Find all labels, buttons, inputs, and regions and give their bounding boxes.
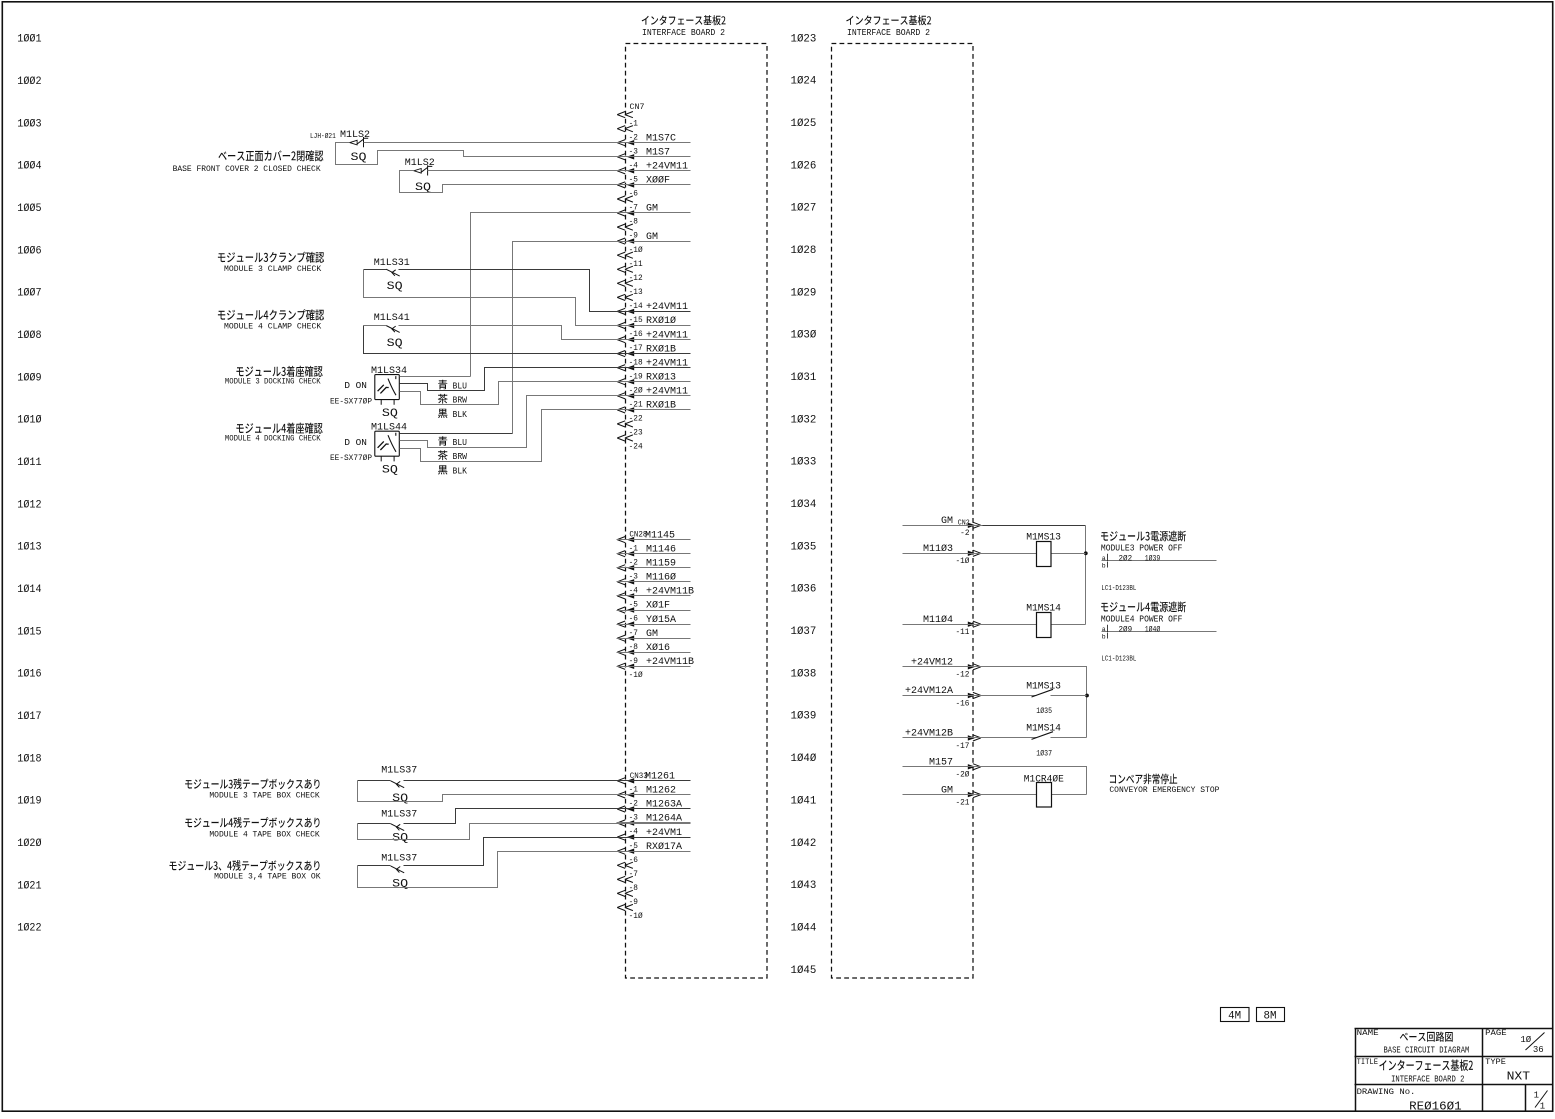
svg-text:TYPE: TYPE [1485, 1059, 1506, 1067]
connector CN33 pin header [617, 778, 625, 784]
svg-text:M1159: M1159 [646, 559, 676, 570]
wire M1LS31 to CN7-14 +24VM11 [364, 270, 691, 312]
wire M157 stub [903, 766, 983, 768]
svg-text:BASE FRONT COVER 2 CLOSED CHEC: BASE FRONT COVER 2 CLOSED CHECK [173, 164, 322, 174]
connector CN2 pin -2Ø M157 [968, 764, 976, 769]
connector CN7 pin 6 [617, 196, 625, 202]
svg-text:M1MS13: M1MS13 [1026, 533, 1061, 544]
wire CN33 M1261 stub [617, 780, 691, 782]
wire M1S7C : M1LS2 to CN7-2 [364, 142, 691, 144]
connector CN28 pin 2 [617, 565, 625, 571]
connector CN7 pin 17 [617, 351, 625, 357]
wire CN7-14 +24VM11 stub [617, 311, 691, 313]
connector CN2 pin -1Ø M11Ø3 [968, 551, 976, 556]
wire M1264A : M1LS37 loop to CN33-3 [358, 824, 691, 840]
connector CN2 pin -16 +24VM12A [968, 693, 976, 698]
svg-text:-17: -17 [629, 345, 643, 353]
svg-text:1: 1 [1534, 1090, 1539, 1100]
connector CN33 pin 6 [617, 862, 625, 868]
svg-text:-8: -8 [629, 885, 639, 893]
svg-text:M1MS14: M1MS14 [1026, 604, 1061, 615]
wire CN28 YØ15A stub [617, 624, 691, 626]
contact cross-reference table a/b 209 1040 [1102, 631, 1217, 633]
svg-text:1Ø16: 1Ø16 [17, 669, 41, 681]
wire M1103 to coil M1MS13 [983, 553, 1086, 555]
svg-text:8M: 8M [1264, 1011, 1277, 1023]
svg-text:1Ø27: 1Ø27 [791, 203, 817, 215]
svg-text:-7: -7 [629, 871, 639, 879]
svg-text:M1LS37: M1LS37 [381, 854, 417, 865]
svg-text:BLU: BLU [453, 381, 468, 392]
label base front cover 2 closed check (JP) [218, 150, 323, 161]
relay coil M1MS13 [1037, 542, 1052, 567]
wire GM : CN7-7 down to M1LS34 [471, 213, 691, 377]
wire GM to coil M1CR40E [983, 794, 1087, 796]
svg-text:BLK: BLK [453, 409, 468, 420]
svg-text:-22: -22 [629, 416, 643, 424]
svg-text:1Ø17: 1Ø17 [17, 711, 41, 723]
svg-text:1Ø41: 1Ø41 [791, 795, 817, 807]
wire +24VM12B stub [903, 737, 983, 739]
label module 4 clamp check (JP) [218, 309, 324, 320]
wire CN7-19 RXØ13 stub [617, 381, 691, 383]
wire CN28 M1159 stub [617, 567, 691, 569]
svg-text:-5: -5 [629, 177, 639, 185]
wire CN7-20 +24VM11 stub [617, 395, 691, 397]
svg-text:MODULE 3 DOCKING CHECK: MODULE 3 DOCKING CHECK [225, 378, 321, 387]
svg-text:b: b [1102, 563, 1106, 570]
wire CN28 M116Ø stub [617, 581, 691, 583]
svg-text:NXT: NXT [1507, 1070, 1531, 1083]
wire CN7-21 RXØ1B stub [617, 409, 691, 411]
svg-text:CN7: CN7 [630, 103, 645, 112]
connector CN7 pin 11 [617, 266, 625, 272]
svg-text:1Ø34: 1Ø34 [791, 499, 817, 511]
connector CN7 pin 23 [617, 435, 625, 441]
svg-text:1ØØ6: 1ØØ6 [17, 245, 41, 257]
svg-text:1Ø37: 1Ø37 [1036, 750, 1052, 759]
svg-text:PAGE: PAGE [1485, 1030, 1507, 1038]
svg-text:-21: -21 [955, 800, 969, 808]
svg-text:SQ: SQ [392, 793, 408, 805]
connector CN7 pin 8 [617, 224, 625, 230]
svg-text:M1LS31: M1LS31 [374, 258, 410, 269]
connector CN2 pin -17 +24VM12B [968, 735, 976, 740]
svg-text:INTERFACE BOARD 2: INTERFACE BOARD 2 [847, 27, 930, 38]
svg-text:-24: -24 [629, 444, 643, 452]
svg-text:MODULE 3 TAPE BOX CHECK: MODULE 3 TAPE BOX CHECK [209, 791, 320, 801]
svg-text:-9: -9 [629, 658, 639, 666]
wire CN28 GM stub [617, 638, 691, 640]
svg-text:BRW: BRW [453, 451, 468, 462]
svg-text:M1LS41: M1LS41 [374, 313, 410, 324]
wire CN28 M1145 stub [617, 539, 691, 541]
wire M1104 to coil M1MS14 [983, 624, 1086, 626]
svg-text:M1146: M1146 [646, 544, 676, 555]
svg-text:-3: -3 [629, 815, 639, 823]
connector CN7 pin 12 [617, 280, 625, 286]
label module 4 tape box check (JP) [185, 817, 319, 828]
svg-text:SQ: SQ [392, 832, 408, 844]
svg-text:1Ø12: 1Ø12 [17, 499, 41, 511]
connector CN33 pin 8 [617, 890, 625, 896]
wire M1261 : M1LS37 to CN33 [358, 780, 691, 782]
connector CN28 pin 4 [617, 593, 625, 599]
wire CN28 XØ1F stub [617, 610, 691, 612]
wire CN7-5 XØØF stub [617, 184, 691, 186]
svg-text:-1: -1 [629, 120, 639, 128]
interface board 2 (left) title [642, 15, 726, 25]
svg-text:TITLE: TITLE [1357, 1059, 1379, 1067]
svg-text:SQ: SQ [387, 338, 403, 350]
svg-text:MODULE 3,4 TAPE BOX OK: MODULE 3,4 TAPE BOX OK [214, 872, 321, 882]
wire GM : CN7-9 down to M1LS44 [513, 242, 691, 434]
wire +24VM1 : M1LS37 to CN33-4 [358, 838, 691, 866]
connector CN2 pin -2 GM [968, 523, 976, 528]
svg-text:-2Ø: -2Ø [629, 386, 643, 395]
svg-text:1Ø45: 1Ø45 [791, 965, 817, 977]
wire RX017A : M1LS37 loop to CN33-5 [358, 852, 691, 888]
svg-text:-13: -13 [629, 289, 643, 297]
svg-text:1Ø36: 1Ø36 [791, 584, 817, 596]
wire CN33 M1263A stub [617, 808, 691, 810]
svg-text:M1LS2: M1LS2 [340, 130, 370, 141]
wire RX010 : M1LS31 loop to CN7-15 [364, 270, 691, 326]
svg-text:INTERFACE BOARD 2: INTERFACE BOARD 2 [1391, 1074, 1464, 1085]
svg-text:SQ: SQ [387, 281, 403, 293]
connector CN7 pin 19 [617, 379, 625, 385]
svg-text:1ØØ5: 1ØØ5 [17, 203, 41, 215]
svg-text:M1LS34: M1LS34 [371, 366, 407, 377]
marker box 4M [1221, 1008, 1250, 1022]
connector CN7 pin 21 [617, 407, 625, 413]
svg-text:-4: -4 [629, 588, 639, 596]
connector CN7 pin 20 [617, 393, 625, 399]
svg-text:-8: -8 [629, 644, 639, 652]
svg-text:CONVEYOR EMERGENCY STOP: CONVEYOR EMERGENCY STOP [1109, 785, 1219, 795]
svg-text:M1LS44: M1LS44 [371, 423, 407, 434]
wire CN28 XØ16 stub [617, 652, 691, 654]
svg-text:M1LS2: M1LS2 [405, 158, 435, 169]
wire CN33 M1264A stub [617, 822, 691, 824]
svg-text:MODULE3 POWER OFF: MODULE3 POWER OFF [1101, 544, 1183, 554]
connector CN33 pin 9 [617, 904, 625, 910]
wire +24VM11 : M1LS2 to CN7-4 [428, 170, 691, 172]
connector CN7 pin 22 [617, 421, 625, 427]
connector CN28 pin 9 [617, 663, 625, 669]
connector CN28 pin 7 [617, 635, 625, 641]
svg-text:1Ø1Ø: 1Ø1Ø [17, 415, 41, 427]
svg-text:-4: -4 [629, 829, 639, 837]
svg-text:-5: -5 [629, 843, 639, 851]
label module 4 docking check (JP) [236, 423, 322, 434]
svg-text:1Ø4Ø: 1Ø4Ø [1145, 625, 1161, 634]
svg-text:-2: -2 [629, 801, 639, 809]
svg-text:-9: -9 [629, 233, 639, 241]
connector CN28 pin header [617, 537, 625, 543]
wire BRW : M1LS44 to CN7-20 +24VM11 [400, 396, 691, 448]
wire M157 to coil bus [983, 767, 1087, 795]
svg-text:-23: -23 [629, 430, 643, 438]
svg-text:1Ø42: 1Ø42 [791, 838, 817, 850]
svg-text:-9: -9 [629, 899, 639, 907]
wire CN33 +24VM1 stub [617, 837, 691, 839]
svg-text:1ØØ9: 1ØØ9 [17, 372, 41, 384]
svg-text:BLK: BLK [453, 466, 468, 477]
wire M1S7 : M1LS2 loop to CN7-3 [336, 143, 691, 165]
svg-text:MODULE4 POWER OFF: MODULE4 POWER OFF [1101, 614, 1183, 624]
svg-text:M116Ø: M116Ø [646, 572, 676, 584]
connector CN28 pin 5 [617, 607, 625, 613]
wire X00F : M1LS2 loop to CN7-5 [400, 171, 691, 193]
svg-text:1Ø31: 1Ø31 [791, 372, 817, 384]
interface board 2 (right) dashed outline [832, 44, 974, 979]
wire CN28 M1146 stub [617, 553, 691, 555]
svg-text:36: 36 [1533, 1045, 1544, 1055]
contact cross-reference table a/b 202 1039 [1102, 560, 1217, 562]
wire M1263A : M1LS37 to CN33-2 [358, 809, 691, 824]
svg-text:1Ø43: 1Ø43 [791, 880, 817, 892]
wire BLU : M1LS34 to GM [400, 376, 471, 378]
svg-text:-15: -15 [629, 317, 643, 325]
connector CN2 pin -12 +24VM12 [968, 664, 976, 669]
svg-text:1Ø4Ø: 1Ø4Ø [791, 753, 817, 765]
connector CN33 pin 5 [617, 848, 625, 854]
svg-text:1Ø14: 1Ø14 [17, 584, 41, 596]
wire RX01B : M1LS41 loop to CN7-17 [364, 326, 691, 354]
svg-text:1ØØ4: 1ØØ4 [17, 161, 41, 173]
connector CN7 pin 2 [617, 140, 625, 146]
svg-text:1Ø18: 1Ø18 [17, 753, 41, 765]
svg-text:DRAWING No.: DRAWING No. [1357, 1087, 1416, 1097]
svg-text:GM: GM [646, 629, 658, 640]
svg-text:INTERFACE BOARD 2: INTERFACE BOARD 2 [642, 27, 725, 38]
svg-text:1Ø22: 1Ø22 [17, 923, 41, 935]
svg-text:EE-SX77ØP: EE-SX77ØP [330, 453, 372, 463]
svg-text:M1LS37: M1LS37 [381, 810, 417, 821]
svg-text:1Ø39: 1Ø39 [791, 711, 817, 723]
wire BLK : M1LS44 to CN7-21 RX01B [400, 410, 691, 462]
svg-text:a: a [1102, 626, 1106, 633]
svg-text:-6: -6 [629, 616, 639, 624]
svg-text:-21: -21 [629, 402, 643, 410]
wire M1262 : M1LS37 loop to CN33-1 [358, 781, 691, 802]
contact M1MS13 (NO) [983, 695, 1087, 697]
wire CN7-18 +24VM11 stub [617, 367, 691, 369]
svg-text:M1LS37: M1LS37 [381, 766, 417, 777]
interface board 2 (right) title [846, 15, 931, 25]
svg-text:1Ø23: 1Ø23 [791, 33, 817, 45]
svg-text:-2Ø: -2Ø [955, 771, 969, 780]
connector CN7 pin 3 [617, 154, 625, 160]
svg-text:SQ: SQ [382, 408, 398, 420]
svg-text:BLU: BLU [453, 437, 468, 448]
wire CN7-15 RXØ1Ø stub [617, 325, 691, 327]
svg-text:1: 1 [1540, 1102, 1545, 1112]
wire M11Ø4 stub [903, 624, 983, 626]
wire CN7-7 GM stub [617, 212, 691, 214]
svg-text:1Ø: 1Ø [1520, 1035, 1531, 1045]
connector CN7 pin 9 [617, 238, 625, 244]
svg-text:-1Ø: -1Ø [955, 557, 969, 566]
connector CN7 pin 5 [617, 182, 625, 188]
svg-text:b: b [1102, 634, 1106, 641]
connector CN33 pin 3 [617, 820, 625, 826]
wire CN7-2 M1S7C stub [617, 142, 691, 144]
svg-text:-18: -18 [629, 359, 643, 367]
svg-text:1Ø39: 1Ø39 [1145, 554, 1161, 563]
junction at M1MS13 coil output [1084, 551, 1088, 555]
svg-text:BASE CIRCUIT DIAGRAM: BASE CIRCUIT DIAGRAM [1384, 1045, 1470, 1056]
svg-text:+24VM11B: +24VM11B [646, 657, 694, 668]
contact M1MS14 (NO) [983, 737, 1087, 739]
relay coil M1CR40E [1037, 783, 1052, 808]
svg-text:+24VM11B: +24VM11B [646, 587, 694, 598]
svg-text:D ON: D ON [344, 437, 367, 448]
wire +24VM12 to contact bus [983, 667, 1087, 738]
svg-text:NAME: NAME [1357, 1030, 1379, 1038]
svg-text:MODULE 4 DOCKING CHECK: MODULE 4 DOCKING CHECK [225, 435, 321, 444]
svg-text:-1: -1 [629, 787, 639, 795]
svg-text:-1Ø: -1Ø [629, 671, 643, 680]
svg-text:XØ1F: XØ1F [646, 600, 670, 612]
connector CN7 pin header [617, 112, 625, 118]
svg-text:1Ø15: 1Ø15 [17, 626, 41, 638]
connector CN28 pin 6 [617, 621, 625, 627]
title block frame [1355, 1028, 1554, 1112]
svg-text:1Ø35: 1Ø35 [1036, 707, 1052, 716]
svg-text:-19: -19 [629, 373, 643, 381]
svg-text:1Ø11: 1Ø11 [17, 457, 41, 469]
svg-text:-1: -1 [629, 545, 639, 553]
svg-text:1ØØ8: 1ØØ8 [17, 330, 41, 342]
svg-text:1Ø25: 1Ø25 [791, 118, 817, 130]
connector CN7 pin 13 [617, 294, 625, 300]
svg-text:-4: -4 [629, 162, 639, 170]
connector CN7 pin 16 [617, 337, 625, 343]
label module 3 docking check (JP) [236, 366, 322, 377]
svg-text:2Ø9: 2Ø9 [1119, 625, 1133, 634]
junction at M1MS13 contact output [1085, 694, 1089, 698]
svg-text:GM: GM [646, 204, 658, 215]
label conveyor emergency stop (JP) [1110, 774, 1177, 785]
svg-text:-7: -7 [629, 630, 639, 638]
wire +24VM12 stub [903, 666, 983, 668]
svg-text:1Ø37: 1Ø37 [791, 626, 817, 638]
svg-text:SQ: SQ [392, 879, 408, 891]
svg-text:1Ø29: 1Ø29 [791, 287, 817, 299]
svg-text:YØ15A: YØ15A [646, 614, 676, 626]
label module 4 power off (JP) [1101, 601, 1186, 612]
svg-text:-6: -6 [629, 857, 639, 865]
connector CN7 pin 18 [617, 365, 625, 371]
svg-text:-1Ø: -1Ø [629, 912, 643, 921]
svg-text:M1CR4ØE: M1CR4ØE [1024, 773, 1064, 785]
svg-text:-16: -16 [955, 700, 969, 708]
svg-text:-11: -11 [955, 629, 969, 637]
wire CN7-16 +24VM11 stub [617, 339, 691, 341]
svg-text:MODULE 3 CLAMP CHECK: MODULE 3 CLAMP CHECK [224, 264, 322, 274]
svg-text:a: a [1102, 555, 1106, 562]
connector CN2 pin -21 GM [968, 792, 976, 797]
svg-text:1Ø19: 1Ø19 [17, 796, 41, 808]
wire BRW : M1LS34 to CN7-18 +24VM11 [400, 368, 691, 391]
svg-text:-2: -2 [629, 559, 639, 567]
connector CN33 pin 1 [617, 792, 625, 798]
svg-text:1Ø13: 1Ø13 [17, 542, 41, 554]
svg-text:1ØØ1: 1ØØ1 [17, 34, 41, 46]
svg-text:1ØØ2: 1ØØ2 [17, 76, 41, 88]
label module 3,4 tape box ok (JP) [170, 860, 320, 871]
wire CN33 RXØ17A stub [617, 851, 691, 853]
svg-text:-12: -12 [629, 275, 643, 283]
connector CN28 pin 8 [617, 649, 625, 655]
wire CN7-17 RXØ1B stub [617, 353, 691, 355]
wire CN7-3 M1S7 stub [617, 156, 691, 158]
svg-text:-11: -11 [629, 261, 643, 269]
connector CN2 pin -11 M11Ø4 [968, 622, 976, 627]
connector CN7 pin 15 [617, 322, 625, 328]
svg-text:M1145: M1145 [645, 530, 675, 541]
svg-text:SQ: SQ [351, 152, 367, 164]
svg-text:-3: -3 [629, 148, 639, 156]
svg-text:MODULE 4 CLAMP CHECK: MODULE 4 CLAMP CHECK [224, 322, 322, 332]
wire GM stub [903, 525, 983, 527]
svg-text:1ØØ7: 1ØØ7 [17, 288, 41, 300]
svg-text:1Ø24: 1Ø24 [791, 76, 817, 88]
wire CN33 M1262 stub [617, 794, 691, 796]
wire GM stub [903, 794, 983, 796]
svg-text:MODULE 4 TAPE BOX CHECK: MODULE 4 TAPE BOX CHECK [209, 829, 320, 839]
wire M1LS41 to CN7-16 +24VM11 [364, 326, 691, 340]
connector CN33 pin 7 [617, 876, 625, 882]
svg-text:XØ16: XØ16 [646, 642, 670, 654]
wire M11Ø3 stub [903, 553, 983, 555]
svg-text:-2: -2 [960, 530, 970, 538]
connector CN7 pin 7 [617, 210, 625, 216]
label module 3 power off (JP) [1101, 531, 1186, 542]
relay coil M1MS14 [1037, 613, 1052, 638]
label module 3 tape box check (JP) [185, 779, 319, 790]
wire BLU : M1LS44 to GM [400, 433, 513, 435]
wire CN7-4 +24VM11 stub [617, 170, 691, 172]
svg-text:EE-SX77ØP: EE-SX77ØP [330, 396, 372, 406]
svg-text:1Ø28: 1Ø28 [791, 245, 817, 257]
svg-text:SQ: SQ [382, 465, 398, 477]
svg-text:-3: -3 [629, 573, 639, 581]
wire +24VM12A stub [903, 695, 983, 697]
svg-text:2Ø2: 2Ø2 [1119, 554, 1133, 563]
svg-text:LC1-D123BL: LC1-D123BL [1101, 656, 1136, 664]
svg-text:1Ø26: 1Ø26 [791, 160, 817, 172]
svg-text:-14: -14 [629, 303, 643, 311]
connector CN33 pin 4 [617, 834, 625, 840]
svg-text:REØ16Ø1: REØ16Ø1 [1409, 1099, 1462, 1113]
svg-text:1Ø44: 1Ø44 [791, 922, 817, 934]
svg-text:1Ø33: 1Ø33 [791, 457, 817, 469]
svg-text:-17: -17 [955, 743, 969, 751]
svg-text:-12: -12 [955, 672, 969, 680]
connector CN7 pin 1 [617, 126, 625, 132]
svg-text:M1MS13: M1MS13 [1026, 681, 1061, 692]
svg-text:1Ø3Ø: 1Ø3Ø [791, 330, 817, 342]
svg-text:LJH-Ø21: LJH-Ø21 [310, 132, 336, 141]
interface board 2 (left) dashed outline [626, 44, 768, 979]
wire GM : CN2-2 to bus [983, 525, 1086, 527]
svg-text:-8: -8 [629, 219, 639, 227]
wire BLK : M1LS34 to CN7-19 RX013 [400, 382, 691, 405]
connector CN7 pin 4 [617, 168, 625, 174]
